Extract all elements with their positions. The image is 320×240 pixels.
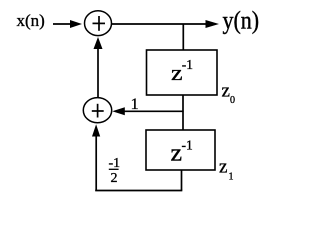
wire feedback to adder U2	[92, 124, 100, 191]
svg-text:-1: -1	[182, 138, 193, 153]
wire delay Z0 to delay Z1	[182, 95, 184, 130]
delay block Z0	[147, 50, 218, 95]
svg-text:z: z	[171, 140, 183, 166]
svg-text:2: 2	[111, 171, 118, 186]
wire adder U1 to output	[112, 20, 220, 28]
wire feedback bottom	[95, 190, 182, 192]
wire delay Z1 down	[181, 170, 183, 191]
svg-text:z: z	[171, 62, 183, 86]
svg-text:1: 1	[229, 172, 234, 183]
svg-text:x(n): x(n)	[17, 11, 45, 30]
wire input to adder U1	[53, 20, 82, 28]
output label y(n)	[223, 7, 260, 35]
svg-text:0: 0	[230, 95, 235, 106]
delay block Z1	[146, 130, 215, 170]
svg-text:z: z	[222, 81, 230, 102]
wire tap to adder U2	[112, 107, 183, 115]
svg-text:1: 1	[131, 96, 139, 113]
gain label -1/2	[109, 156, 121, 186]
adder U1	[85, 11, 112, 36]
label z0	[222, 81, 236, 107]
label z1	[219, 157, 234, 183]
svg-text:-1: -1	[182, 57, 193, 72]
svg-text:z: z	[219, 157, 227, 178]
wire adder U2 to adder U1	[94, 37, 103, 98]
svg-text:y(n): y(n)	[223, 7, 260, 35]
input label x(n)	[17, 11, 45, 30]
gain label 1	[131, 96, 139, 113]
wire branch node to delay Z0	[182, 24, 184, 50]
adder U2	[83, 98, 111, 123]
